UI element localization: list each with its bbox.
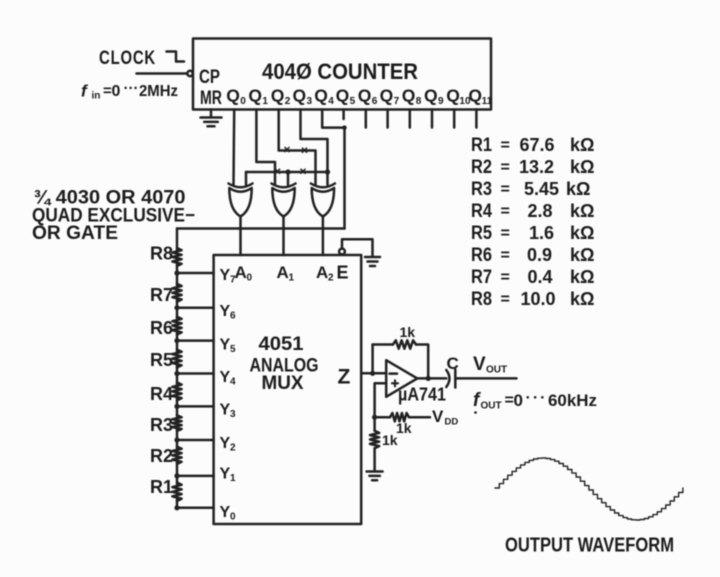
svg-text:R8: R8	[471, 289, 492, 310]
svg-text:1k: 1k	[396, 420, 412, 436]
svg-text:R3: R3	[150, 415, 173, 435]
svg-text:1k: 1k	[382, 432, 398, 448]
svg-text:kΩ: kΩ	[570, 201, 594, 221]
svg-text:kΩ: kΩ	[566, 179, 590, 199]
svg-text:R4: R4	[150, 384, 173, 404]
svg-text:OUT: OUT	[486, 365, 507, 376]
svg-text:=: =	[501, 181, 510, 198]
svg-text:MR: MR	[200, 88, 222, 109]
svg-text:0: 0	[240, 96, 246, 107]
svg-text:=: =	[501, 225, 510, 242]
svg-text:8: 8	[416, 96, 422, 107]
svg-text:A: A	[277, 263, 289, 282]
svg-text:V: V	[432, 407, 444, 426]
svg-text:R1: R1	[150, 477, 173, 497]
svg-text:···: ···	[124, 80, 139, 97]
svg-text:R2: R2	[150, 446, 173, 466]
svg-text:V: V	[473, 354, 486, 375]
svg-text:Q: Q	[468, 86, 482, 106]
svg-text:···: ···	[526, 390, 548, 407]
svg-text:Y: Y	[220, 402, 231, 419]
svg-text:10.0: 10.0	[521, 289, 556, 309]
svg-text:=: =	[501, 137, 510, 154]
svg-text:3: 3	[230, 409, 236, 420]
svg-text:0.4: 0.4	[528, 267, 553, 287]
svg-text:kΩ: kΩ	[570, 289, 594, 309]
svg-text:Y: Y	[220, 435, 231, 452]
svg-text:6: 6	[372, 96, 378, 107]
svg-text:1k: 1k	[400, 324, 416, 340]
svg-text:1: 1	[289, 273, 295, 284]
svg-text:kΩ: kΩ	[570, 245, 594, 265]
svg-text:404Ø COUNTER: 404Ø COUNTER	[262, 59, 418, 84]
svg-text:0: 0	[247, 273, 253, 284]
svg-text:Q: Q	[248, 86, 262, 106]
svg-text:0: 0	[514, 391, 523, 410]
svg-text:A: A	[316, 263, 328, 282]
svg-text:Q: Q	[293, 86, 307, 106]
svg-text:Q: Q	[358, 86, 372, 106]
svg-text:Y: Y	[220, 504, 231, 521]
svg-text:67.6: 67.6	[520, 135, 555, 155]
svg-text:Y: Y	[220, 267, 231, 284]
svg-text:11: 11	[482, 96, 493, 107]
svg-text:DD: DD	[445, 417, 459, 428]
svg-text:A: A	[235, 263, 247, 282]
svg-text:=: =	[501, 291, 510, 308]
svg-text:E: E	[337, 263, 349, 283]
svg-text:R1: R1	[471, 135, 492, 156]
svg-text:kΩ: kΩ	[570, 267, 594, 287]
svg-text:Y: Y	[220, 303, 231, 320]
svg-text:C: C	[447, 354, 459, 373]
svg-text:=: =	[501, 159, 510, 176]
svg-text:Z: Z	[338, 366, 351, 389]
svg-text:1.6: 1.6	[529, 223, 554, 243]
svg-text:R7: R7	[150, 285, 173, 305]
svg-text:Y: Y	[220, 369, 231, 386]
svg-text:2: 2	[285, 96, 291, 107]
svg-text:1: 1	[230, 473, 236, 484]
svg-text:kΩ: kΩ	[570, 157, 594, 177]
svg-text:Q: Q	[226, 86, 240, 106]
svg-text:3: 3	[307, 96, 313, 107]
svg-text:kΩ: kΩ	[570, 223, 594, 243]
svg-text:5: 5	[350, 96, 356, 107]
svg-text:Y: Y	[220, 466, 231, 483]
svg-text:=: =	[501, 269, 510, 286]
svg-text:Q: Q	[271, 86, 285, 106]
svg-text:9: 9	[438, 96, 444, 107]
svg-text:4: 4	[328, 96, 334, 107]
svg-text:5.45: 5.45	[524, 179, 559, 199]
svg-text:0.9: 0.9	[527, 245, 552, 265]
svg-text:Q: Q	[314, 86, 328, 106]
svg-text:Q: Q	[402, 86, 416, 106]
svg-text:Q: Q	[380, 86, 394, 106]
svg-text:R2: R2	[471, 157, 492, 178]
svg-text:CLOCK: CLOCK	[99, 48, 156, 69]
svg-text:µA741: µA741	[398, 385, 446, 405]
svg-text:OUT: OUT	[481, 401, 502, 412]
svg-text:2MHz: 2MHz	[139, 83, 178, 100]
svg-text:60kHz: 60kHz	[548, 391, 597, 410]
svg-text:in: in	[92, 91, 101, 102]
svg-text:=: =	[505, 392, 514, 409]
svg-text:Q: Q	[424, 86, 438, 106]
svg-text:OR GATE: OR GATE	[32, 223, 118, 244]
svg-text:2.8: 2.8	[528, 201, 553, 221]
svg-text:R3: R3	[471, 179, 492, 200]
svg-text:R8: R8	[150, 244, 173, 264]
svg-text:0: 0	[230, 512, 236, 523]
svg-text:=: =	[501, 247, 510, 264]
svg-text:R7: R7	[471, 267, 492, 288]
svg-text:OUTPUT WAVEFORM: OUTPUT WAVEFORM	[505, 535, 674, 557]
svg-text:CP: CP	[199, 67, 220, 88]
svg-text:1: 1	[262, 96, 268, 107]
svg-text:R6: R6	[150, 318, 173, 338]
svg-text:4051: 4051	[259, 334, 304, 355]
svg-text:Y: Y	[220, 337, 231, 354]
svg-text:R4: R4	[471, 201, 492, 222]
svg-text:Q: Q	[446, 86, 460, 106]
svg-text:0: 0	[112, 83, 121, 100]
svg-text:MUX: MUX	[262, 373, 304, 394]
svg-text:R6: R6	[471, 245, 492, 266]
svg-text:13.2: 13.2	[519, 157, 554, 177]
svg-text:R5: R5	[150, 350, 173, 370]
svg-text:4: 4	[230, 377, 236, 388]
svg-text:2: 2	[328, 273, 334, 284]
svg-text:kΩ: kΩ	[570, 135, 594, 155]
svg-text:5: 5	[230, 344, 236, 355]
svg-text:7: 7	[394, 96, 400, 107]
svg-text:=: =	[501, 203, 510, 220]
svg-text:6: 6	[230, 311, 236, 322]
svg-text:R5: R5	[471, 223, 492, 244]
svg-text:Q: Q	[336, 86, 350, 106]
svg-text:2: 2	[230, 443, 236, 454]
